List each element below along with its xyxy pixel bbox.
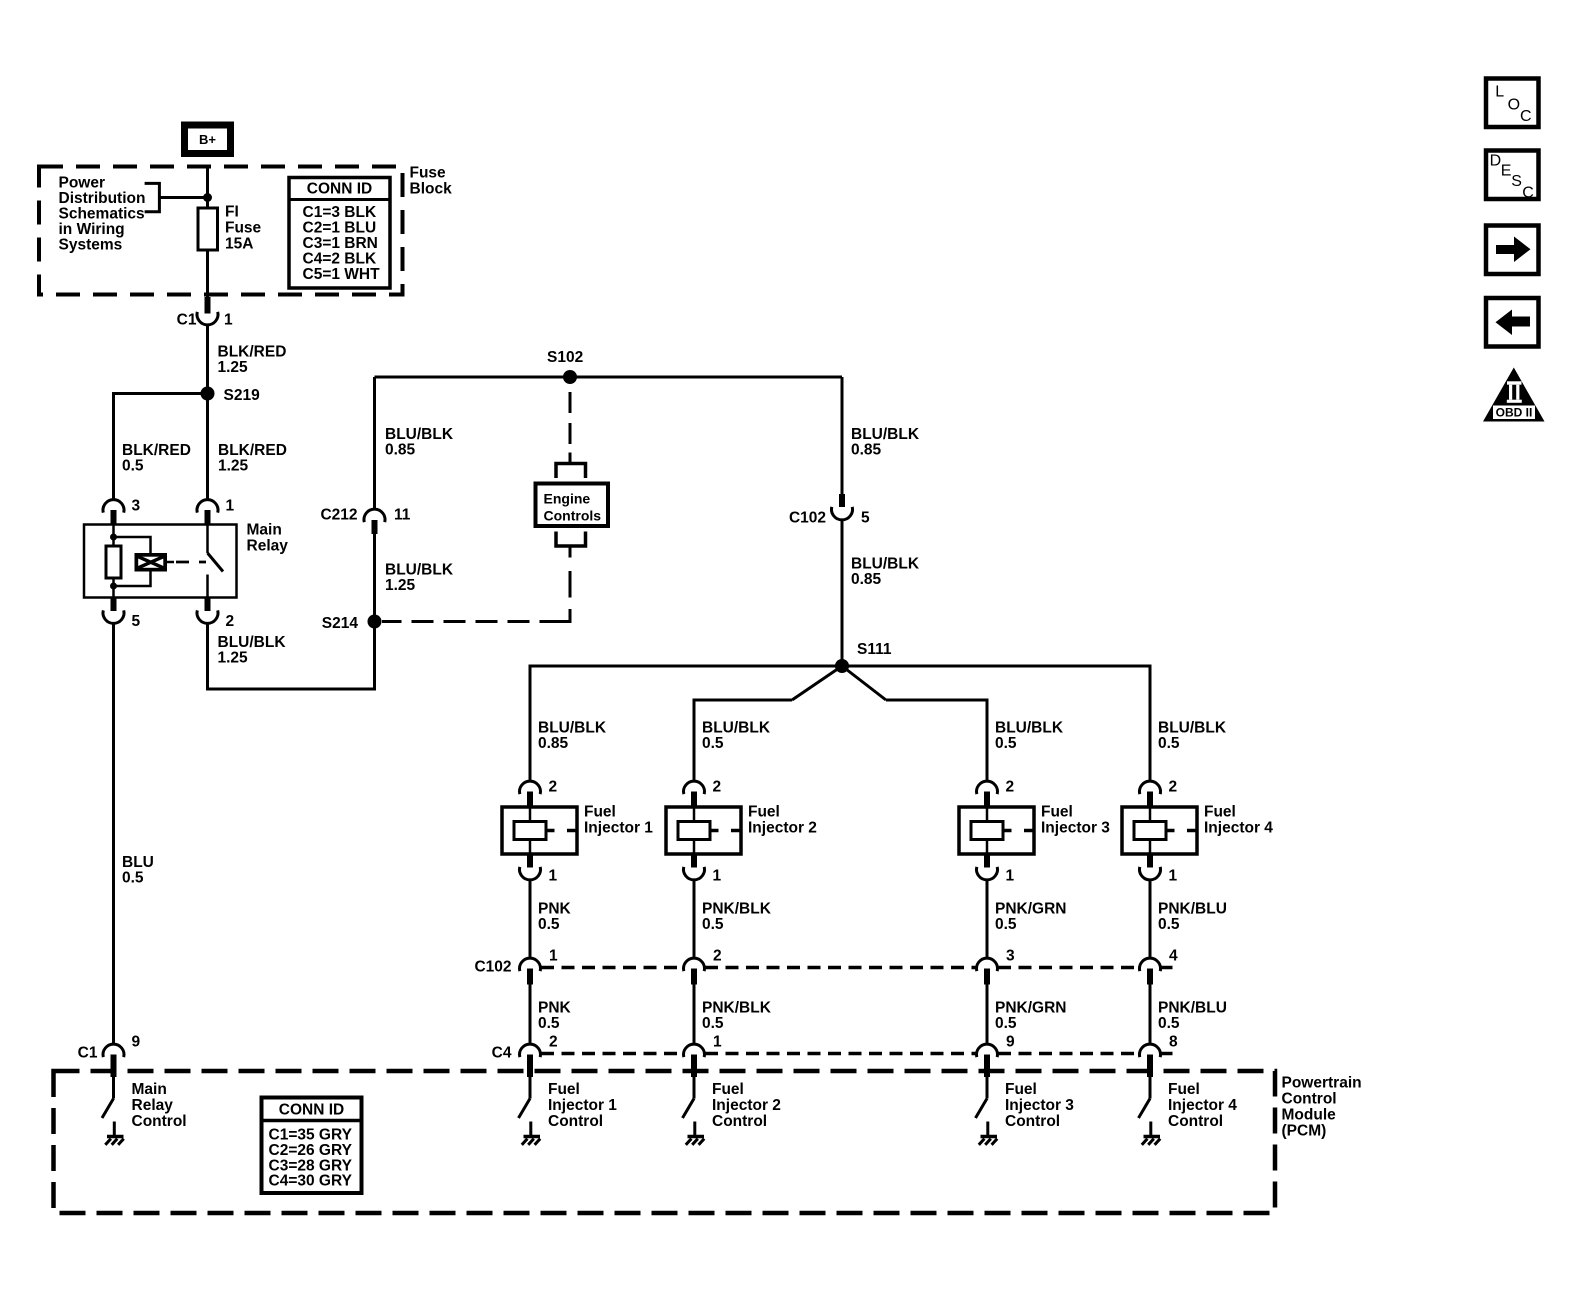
svg-text:BLU/BLK: BLU/BLK — [385, 562, 454, 579]
connector fuel injector 2 pin 2 — [684, 781, 705, 794]
svg-text:Main: Main — [247, 522, 282, 539]
svg-text:C102: C102 — [789, 510, 826, 527]
svg-text:C212: C212 — [320, 507, 357, 524]
svg-text:11: 11 — [394, 507, 411, 524]
svg-text:Module: Module — [1282, 1107, 1337, 1124]
svg-text:1: 1 — [713, 1034, 722, 1051]
svg-text:BLU/BLK: BLU/BLK — [1158, 720, 1227, 737]
svg-text:Power: Power — [59, 175, 106, 192]
node power distribution tap — [203, 193, 212, 202]
svg-text:0.5: 0.5 — [995, 735, 1017, 752]
svg-text:S111: S111 — [857, 641, 892, 658]
svg-text:Fuse: Fuse — [410, 165, 447, 182]
svg-text:Control: Control — [548, 1113, 603, 1130]
fuse FI 15A — [198, 208, 218, 250]
svg-text:Fuel: Fuel — [584, 804, 616, 821]
wire S102 bus — [375, 376, 843, 379]
PCM fuel injector 1 control driver — [529, 1077, 532, 1099]
svg-text:S219: S219 — [224, 387, 261, 404]
connector C102 pin 4 — [1140, 958, 1161, 971]
svg-text:Relay: Relay — [132, 1097, 174, 1114]
connector C102 pin 5 — [839, 494, 845, 507]
wire S111 to injector 4 — [1149, 665, 1152, 782]
svg-text:C: C — [1522, 184, 1534, 201]
svg-text:BLU/BLK: BLU/BLK — [995, 720, 1064, 737]
power distribution bracket — [145, 183, 160, 211]
svg-text:Powertrain: Powertrain — [1282, 1075, 1362, 1092]
svg-text:Control: Control — [712, 1113, 767, 1130]
wire S111 diagonal left — [792, 666, 842, 700]
svg-text:Relay: Relay — [247, 538, 289, 555]
wire S111 diagonal right — [842, 666, 886, 700]
svg-text:Injector 4: Injector 4 — [1204, 820, 1273, 837]
svg-text:Engine: Engine — [544, 491, 591, 507]
svg-text:OBD II: OBD II — [1496, 406, 1533, 420]
svg-text:0.85: 0.85 — [851, 571, 882, 588]
svg-text:CONN ID: CONN ID — [307, 181, 372, 198]
svg-text:PNK: PNK — [538, 1000, 572, 1017]
svg-text:C1=3 BLK: C1=3 BLK — [303, 204, 377, 221]
svg-text:C5=1 WHT: C5=1 WHT — [303, 266, 381, 283]
fuel injector 4 box — [1122, 807, 1197, 854]
svg-text:Injector 2: Injector 2 — [748, 820, 817, 837]
wire C102 to S111 — [841, 521, 844, 667]
svg-text:C2=26 GRY: C2=26 GRY — [269, 1142, 353, 1159]
splice S219 — [201, 387, 215, 401]
PCM dashed outline — [54, 1071, 1276, 1213]
wire PNK/BLU 0.5 (C102 to C4) — [1149, 980, 1152, 1044]
svg-text:2: 2 — [1006, 779, 1015, 796]
svg-text:2: 2 — [713, 779, 722, 796]
icon LOC box — [1486, 79, 1539, 128]
svg-text:Fuel: Fuel — [1041, 804, 1073, 821]
svg-text:Fuel: Fuel — [1168, 1081, 1200, 1098]
connector fuel injector 4 pin 2 — [1140, 781, 1161, 794]
svg-text:0.5: 0.5 — [538, 1015, 560, 1032]
svg-text:0.5: 0.5 — [702, 735, 724, 752]
wire dashed S102 to engine controls — [569, 392, 572, 444]
connector relay pin 2 — [205, 598, 211, 612]
wire S219 down branch — [206, 394, 209, 501]
PCM main relay control driver — [112, 1077, 115, 1099]
svg-text:PNK: PNK — [538, 901, 572, 918]
engine controls bottom bracket — [556, 532, 586, 547]
svg-text:Injector 2: Injector 2 — [712, 1097, 781, 1114]
svg-text:Control: Control — [132, 1113, 187, 1130]
fuse block CONN ID table — [289, 178, 390, 289]
svg-text:0.5: 0.5 — [1158, 735, 1180, 752]
connector C212 pin 11 — [364, 509, 385, 522]
svg-text:PNK/BLK: PNK/BLK — [702, 901, 772, 918]
svg-text:Controls: Controls — [544, 508, 602, 524]
svg-text:C4: C4 — [492, 1045, 512, 1062]
wire BLU/BLK 0.85 (S102 to C102) — [841, 377, 844, 494]
wire S111 bus — [530, 665, 1150, 668]
svg-text:BLU: BLU — [122, 854, 154, 871]
svg-text:1: 1 — [224, 312, 233, 329]
svg-text:Control: Control — [1005, 1113, 1060, 1130]
relay resistor — [106, 546, 121, 578]
svg-text:PNK/BLU: PNK/BLU — [1158, 1000, 1227, 1017]
wire PNK/GRN 0.5 (C102 to C4) — [986, 980, 989, 1044]
svg-text:D: D — [1490, 153, 1502, 170]
connector relay pin 3 — [103, 500, 124, 513]
svg-text:C1=35 GRY: C1=35 GRY — [269, 1127, 353, 1144]
svg-text:1.25: 1.25 — [385, 577, 416, 594]
svg-text:0.5: 0.5 — [122, 458, 144, 475]
wire B+ to fuse — [206, 167, 209, 301]
relay node lower — [110, 583, 117, 590]
svg-text:0.5: 0.5 — [702, 1015, 724, 1032]
svg-text:Fuel: Fuel — [748, 804, 780, 821]
svg-text:9: 9 — [132, 1034, 141, 1051]
svg-text:BLU/BLK: BLU/BLK — [702, 720, 771, 737]
connector fuel injector 2 pin 1 — [691, 854, 697, 868]
svg-text:BLU/BLK: BLU/BLK — [538, 720, 607, 737]
svg-text:Control: Control — [1168, 1113, 1223, 1130]
svg-text:Injector 4: Injector 4 — [1168, 1097, 1237, 1114]
connector C102 pin 1 — [520, 958, 541, 971]
PCM fuel injector 4 control driver — [1149, 1077, 1152, 1099]
svg-text:2: 2 — [226, 613, 235, 630]
connector C4 pin 8 — [1140, 1044, 1161, 1057]
svg-text:PNK/GRN: PNK/GRN — [995, 901, 1066, 918]
svg-text:Main: Main — [132, 1081, 167, 1098]
svg-text:BLU/BLK: BLU/BLK — [218, 634, 287, 651]
svg-text:1: 1 — [226, 498, 235, 515]
relay switch — [206, 525, 209, 554]
svg-text:1.25: 1.25 — [218, 458, 249, 475]
svg-text:C1: C1 — [177, 312, 197, 329]
connector relay pin 1 — [197, 500, 218, 513]
svg-text:CONN ID: CONN ID — [279, 1102, 344, 1119]
icon DESC box — [1486, 151, 1539, 200]
svg-text:0.85: 0.85 — [851, 442, 882, 459]
fuel injector 3 box — [959, 807, 1034, 854]
svg-text:1: 1 — [549, 868, 558, 885]
wire PNK 0.5 (C102 to C4) — [529, 980, 532, 1044]
svg-text:1: 1 — [1006, 868, 1015, 885]
svg-text:Injector 1: Injector 1 — [584, 820, 653, 837]
relay node upper — [110, 534, 117, 541]
svg-text:C102: C102 — [474, 959, 511, 976]
wire PNK/BLK 0.5 (injector 2 to C102) — [693, 881, 696, 958]
connector fuel injector 3 pin 1 — [984, 854, 990, 868]
fuse block dashed outline — [39, 167, 403, 295]
svg-text:O: O — [1508, 97, 1520, 114]
svg-text:4: 4 — [1169, 948, 1178, 965]
svg-text:Injector 3: Injector 3 — [1041, 820, 1110, 837]
svg-text:C4=2 BLK: C4=2 BLK — [303, 251, 377, 268]
svg-text:5: 5 — [861, 510, 870, 527]
svg-text:C1: C1 — [78, 1045, 98, 1062]
connector fuel injector 3 pin 2 — [977, 781, 998, 794]
relay coil loop wire — [114, 537, 151, 554]
wire BLU/BLK 1.25 (pin 2 to C212) — [208, 534, 375, 689]
svg-text:8: 8 — [1169, 1034, 1178, 1051]
svg-text:Schematics: Schematics — [59, 206, 145, 223]
wire PNK/BLK 0.5 (C102 to C4) — [693, 980, 696, 1044]
wire dashed engine controls to S214 — [569, 571, 572, 598]
svg-text:Control: Control — [1282, 1091, 1337, 1108]
svg-text:0.5: 0.5 — [1158, 916, 1180, 933]
svg-text:0.5: 0.5 — [995, 916, 1017, 933]
svg-text:0.5: 0.5 — [538, 916, 560, 933]
fuel injector 1 box — [502, 807, 577, 854]
svg-text:0.5: 0.5 — [702, 916, 724, 933]
relay coil symbol — [135, 554, 167, 572]
wire BLU/BLK 0.85 (C212 to S102) — [373, 377, 376, 509]
svg-text:Block: Block — [410, 181, 453, 198]
connector C102 pin 3 — [977, 958, 998, 971]
svg-text:Fuse: Fuse — [225, 220, 262, 237]
connector C4 pin 1 — [684, 1044, 705, 1057]
relay coil branch wire — [112, 525, 115, 598]
PCM fuel injector 2 control driver — [693, 1077, 696, 1099]
svg-text:Injector 3: Injector 3 — [1005, 1097, 1074, 1114]
svg-text:S102: S102 — [547, 349, 583, 366]
svg-text:1.25: 1.25 — [218, 650, 249, 667]
svg-text:2: 2 — [713, 948, 722, 965]
svg-text:in Wiring: in Wiring — [59, 221, 125, 238]
engine controls top bracket — [556, 464, 586, 479]
svg-text:BLU/BLK: BLU/BLK — [851, 556, 920, 573]
icon back arrow box — [1486, 298, 1539, 347]
engine controls box — [536, 484, 609, 527]
PCM fuel injector 3 control driver — [986, 1077, 989, 1099]
wire PNK/GRN 0.5 (injector 3 to C102) — [986, 881, 989, 958]
svg-text:C: C — [1520, 108, 1532, 125]
svg-text:PNK/BLU: PNK/BLU — [1158, 901, 1227, 918]
connector fuel injector 1 pin 2 — [520, 781, 541, 794]
svg-text:PNK/GRN: PNK/GRN — [995, 1000, 1066, 1017]
splice S111 — [835, 659, 849, 673]
icon OBD II triangle — [1483, 368, 1545, 422]
svg-text:2: 2 — [1169, 779, 1178, 796]
svg-text:5: 5 — [132, 613, 141, 630]
PCM CONN ID table — [262, 1098, 362, 1194]
svg-text:BLU/BLK: BLU/BLK — [385, 426, 454, 443]
svg-text:(PCM): (PCM) — [1282, 1123, 1327, 1140]
svg-text:0.5: 0.5 — [1158, 1015, 1180, 1032]
svg-text:B+: B+ — [199, 132, 216, 147]
connector C4 pin 2 — [520, 1044, 541, 1057]
connector C102 pin 2 — [684, 958, 705, 971]
svg-text:BLK/RED: BLK/RED — [122, 442, 191, 459]
svg-text:Fuel: Fuel — [1005, 1081, 1037, 1098]
svg-text:Fuel: Fuel — [1204, 804, 1236, 821]
svg-text:0.85: 0.85 — [385, 442, 416, 459]
wire S219 left branch — [114, 394, 208, 501]
splice S214 — [368, 615, 382, 629]
svg-text:1.25: 1.25 — [218, 359, 249, 376]
svg-text:1: 1 — [549, 948, 558, 965]
wire S111 to injector 1 — [529, 665, 532, 782]
svg-text:Fuel: Fuel — [712, 1081, 744, 1098]
wire PNK 0.5 (injector 1 to C102) — [529, 881, 532, 958]
svg-text:Distribution: Distribution — [59, 190, 146, 207]
connector C4 pin 9 — [977, 1044, 998, 1057]
svg-text:C3=1 BRN: C3=1 BRN — [303, 235, 378, 252]
fuel injector 2 box — [666, 807, 741, 854]
svg-text:BLK/RED: BLK/RED — [218, 344, 287, 361]
svg-text:15A: 15A — [225, 236, 253, 253]
svg-text:FI: FI — [225, 204, 239, 221]
svg-text:2: 2 — [549, 779, 558, 796]
svg-text:C2=1 BLU: C2=1 BLU — [303, 220, 377, 237]
svg-text:Systems: Systems — [59, 237, 123, 254]
svg-text:3: 3 — [132, 498, 141, 515]
svg-text:PNK/BLK: PNK/BLK — [702, 1000, 772, 1017]
svg-text:0.85: 0.85 — [538, 735, 569, 752]
power feed B+ box — [185, 125, 231, 154]
svg-text:1: 1 — [713, 868, 722, 885]
wire BLK/RED 1.25 (C1 to S219) — [206, 326, 209, 394]
wire PNK/BLU 0.5 (injector 4 to C102) — [1149, 881, 1152, 958]
svg-text:L: L — [1495, 83, 1504, 100]
svg-text:2: 2 — [549, 1034, 558, 1051]
svg-text:0.5: 0.5 — [122, 870, 144, 887]
wire BLU 0.5 (pin 5 to PCM) — [112, 624, 115, 1044]
connector C1 pin 9 — [103, 1044, 124, 1057]
svg-text:1: 1 — [1169, 868, 1178, 885]
svg-text:BLU/BLK: BLU/BLK — [851, 426, 920, 443]
svg-text:Injector 1: Injector 1 — [548, 1097, 617, 1114]
svg-text:3: 3 — [1006, 948, 1015, 965]
svg-text:S214: S214 — [322, 615, 359, 632]
svg-text:S: S — [1511, 173, 1522, 190]
connector C1 pin 1 — [205, 297, 211, 314]
svg-text:Fuel: Fuel — [548, 1081, 580, 1098]
relay K1 Main Relay box — [84, 525, 237, 598]
connector relay pin 5 — [111, 598, 117, 612]
svg-text:E: E — [1501, 162, 1512, 179]
svg-text:9: 9 — [1006, 1034, 1015, 1051]
icon forward arrow box — [1486, 226, 1539, 275]
connector fuel injector 1 pin 1 — [527, 854, 533, 868]
connector fuel injector 4 pin 1 — [1147, 854, 1153, 868]
svg-text:0.5: 0.5 — [995, 1015, 1017, 1032]
relay coil actuating link — [167, 561, 175, 564]
svg-text:C4=30 GRY: C4=30 GRY — [269, 1173, 353, 1190]
svg-text:BLK/RED: BLK/RED — [218, 442, 287, 459]
splice S102 — [563, 370, 577, 384]
